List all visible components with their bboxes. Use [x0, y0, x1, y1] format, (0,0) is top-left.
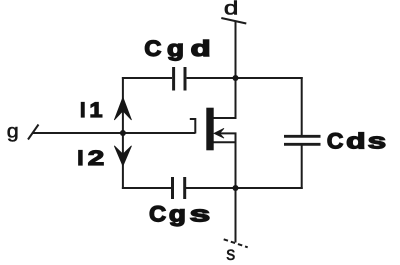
terminal tick d — [221, 18, 246, 24]
transistor Q1 source arrow — [214, 128, 224, 138]
svg-text:g: g — [169, 201, 186, 226]
transistor Q1 gate electrode — [190, 119, 196, 134]
wire drain lead horizontal — [214, 117, 237, 119]
wire source vertical — [235, 133, 237, 242]
terminal tick g — [28, 125, 39, 140]
svg-text:d: d — [224, 0, 239, 20]
wire bottom rail left segment — [122, 187, 171, 189]
svg-text:d: d — [191, 36, 211, 61]
label Cgs — [149, 201, 210, 226]
svg-text:s: s — [368, 129, 387, 154]
svg-text:C: C — [149, 201, 166, 226]
svg-text:C: C — [327, 129, 344, 154]
node junction dot source — [233, 185, 239, 191]
node junction dot drain — [233, 75, 239, 81]
wire bottom rail right segment — [186, 187, 303, 189]
wire mosfet arrow shaft — [216, 132, 237, 134]
label I1 — [80, 99, 103, 122]
label Cgd — [144, 36, 210, 61]
label Cds — [327, 129, 386, 154]
svg-text:C: C — [144, 36, 161, 61]
capacitor Cgs plates — [173, 177, 185, 199]
capacitor Cgd plates — [174, 67, 185, 91]
svg-text:1: 1 — [90, 99, 103, 122]
wire left vertical branch — [122, 77, 124, 189]
node junction dot gate — [120, 130, 126, 136]
svg-text:2: 2 — [88, 147, 105, 170]
capacitor Cds plates — [284, 136, 321, 144]
wire gate horizontal — [33, 132, 195, 134]
label I2 — [77, 147, 104, 170]
wire source lead bottom horizontal — [214, 141, 237, 143]
wire top rail left segment — [122, 77, 172, 79]
svg-text:s: s — [190, 201, 211, 226]
terminal tick s dashed — [224, 239, 248, 247]
arrow I2 down — [114, 146, 131, 166]
transistor Q1 channel bar — [206, 108, 213, 151]
svg-text:g: g — [7, 122, 19, 143]
wire drain vertical — [235, 21, 237, 119]
svg-text:I: I — [80, 99, 86, 122]
wire right vertical upper segment — [301, 77, 303, 135]
svg-text:d: d — [346, 129, 366, 154]
svg-text:s: s — [226, 244, 235, 265]
svg-text:I: I — [77, 147, 83, 170]
wire right vertical lower segment — [301, 146, 303, 190]
arrow I1 up — [114, 97, 131, 120]
svg-text:g: g — [167, 36, 184, 61]
wire top rail right segment — [187, 77, 303, 79]
